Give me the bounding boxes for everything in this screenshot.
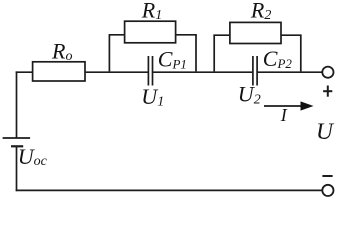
wire: left vertical from top rail down to battery positive plate <box>16 71 18 137</box>
wire: R2 branch left horizontal <box>213 34 230 36</box>
wire: top rail from CP2 to positive terminal <box>257 71 322 73</box>
capacitor CP2 left plate <box>252 56 254 86</box>
wire: R1 branch right horizontal <box>176 34 197 36</box>
node C: junction of R2 branch with top rail <box>213 35 215 71</box>
wire: R2 branch right horizontal <box>281 34 302 36</box>
voltage source Uoc long plate (positive) <box>3 137 31 139</box>
capacitor CP1 right plate <box>152 56 154 86</box>
capacitor CP1 left plate <box>147 56 149 86</box>
wire: bottom rail from battery to negative terminal <box>16 189 323 191</box>
terminal: positive output (open circle) <box>322 67 333 78</box>
svg-text:I: I <box>280 105 288 125</box>
node A: junction of R1 branch with top rail <box>108 35 110 72</box>
wire: top rail from left corner to Ro <box>16 71 34 73</box>
resistor Ro (box) <box>33 62 85 81</box>
capacitor CP2 right plate <box>256 56 258 86</box>
current arrow I: shaft <box>264 105 303 107</box>
voltage source Uoc short plate (negative) <box>11 145 23 147</box>
svg-text:U: U <box>316 119 335 145</box>
resistor R2 (box) <box>230 22 281 43</box>
wire: top rail from Ro to node A (left node of R1/CP1 pair) <box>85 71 148 73</box>
plus sign at positive terminal <box>323 86 332 97</box>
wire: R1 branch left horizontal <box>109 34 125 36</box>
terminal: negative output (open circle) <box>322 185 333 196</box>
wire: from battery negative plate down to bottom rail <box>16 146 18 191</box>
wire: R1 branch right vertical down to node B <box>195 35 197 72</box>
minus sign at negative terminal <box>322 175 332 177</box>
wire: R2 branch right vertical down to node D <box>300 35 302 71</box>
wire: top rail from CP1 through node B to node C <box>153 71 253 73</box>
current arrow I: head <box>301 101 314 110</box>
resistor R1 (box) <box>125 21 176 43</box>
